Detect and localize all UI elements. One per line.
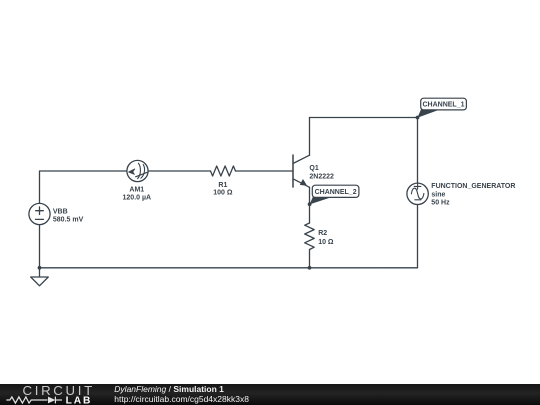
wire ammeter to R1 [148,170,210,172]
junction at VBB/ground [38,266,42,270]
transistor Q1 [292,155,294,187]
junction at CHANNEL_1 probe [416,116,420,120]
resistor R2 [305,223,315,250]
wire Q1 emitter down to R2 [309,187,311,223]
svg-text:120.0 µA: 120.0 µA [123,194,152,201]
wire bottom rail [40,267,418,269]
footer title line [114,384,224,394]
wire Q1 collector up [309,118,311,156]
flag CHANNEL_2 [310,185,359,204]
svg-text:CHANNEL_1: CHANNEL_1 [422,102,464,109]
voltage source FUNCTION_GENERATOR [407,183,428,204]
wire R2 to bottom rail [309,250,311,268]
junction at R2 bottom [308,266,312,270]
svg-text:R2: R2 [318,230,327,237]
svg-text:100 Ω: 100 Ω [213,190,233,197]
ammeter AM1 [127,160,148,181]
wire VBB bottom lead [39,225,41,268]
svg-text:2N2222: 2N2222 [309,173,334,180]
wire R1 to Q1 base [236,170,294,172]
svg-text:CHANNEL_2: CHANNEL_2 [315,189,357,196]
logo resistor zigzag and diode [6,397,62,404]
resistor R1 [211,166,236,176]
svg-text:sine: sine [431,192,445,199]
function generator FUNCTION_GENERATOR top lead [417,118,419,184]
svg-text:VBB: VBB [53,209,68,216]
svg-text:580.5 mV: 580.5 mV [53,217,84,224]
footer url line [114,394,249,404]
wire VBB top lead to top-left corner [40,171,127,203]
ground [31,268,49,286]
svg-text:R1: R1 [218,182,227,189]
svg-text:AM1: AM1 [129,187,144,194]
wire function generator bottom lead [417,205,419,268]
junction at CHANNEL_2 probe [308,202,312,206]
svg-text:Q1: Q1 [309,165,318,172]
svg-text:LAB: LAB [66,395,93,405]
wire top collector to function generator [310,117,418,119]
footer bar [0,384,540,405]
flag CHANNEL_1 [417,98,466,118]
svg-text:50 Hz: 50 Hz [431,199,450,206]
svg-text:10 Ω: 10 Ω [318,239,334,246]
voltage source VBB [29,203,50,224]
svg-text:FUNCTION_GENERATOR: FUNCTION_GENERATOR [431,183,515,190]
